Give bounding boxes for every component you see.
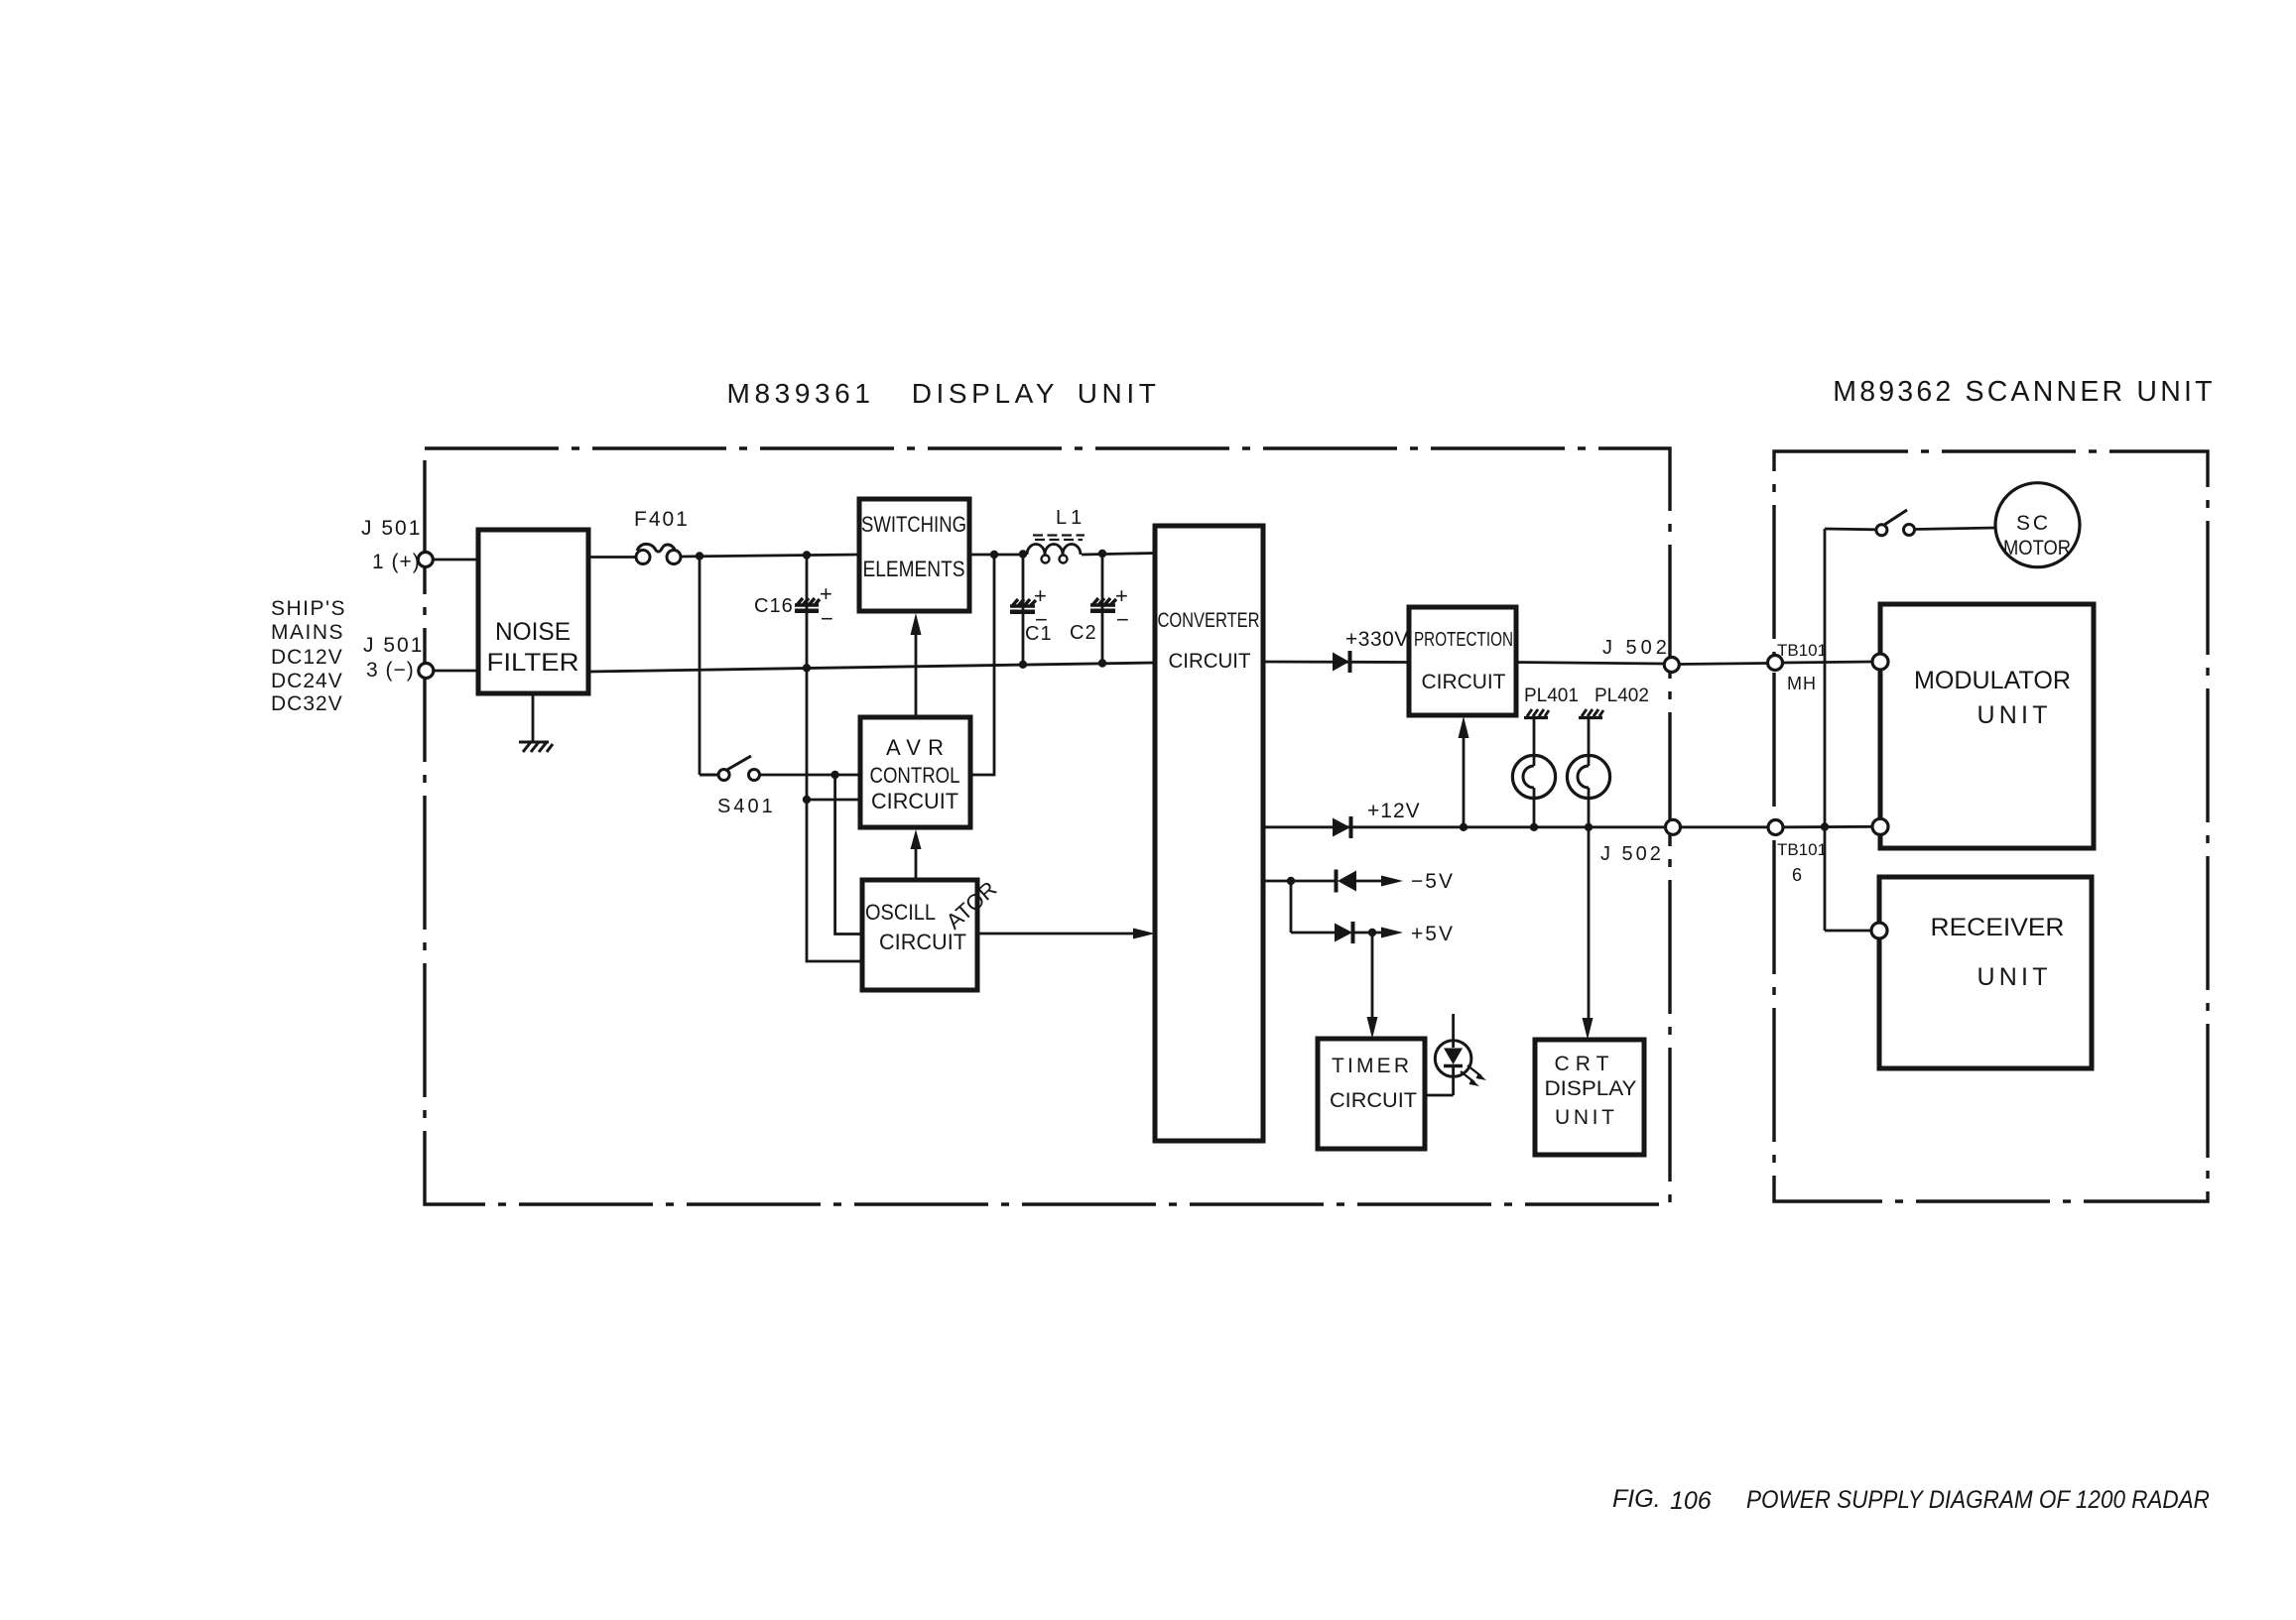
junction -5V/+5V split <box>1287 877 1295 885</box>
svg-text:−: − <box>1116 607 1129 632</box>
terminal J501-1 <box>418 553 433 567</box>
wire AVR feedback <box>970 555 994 775</box>
fuse F401 <box>636 544 681 563</box>
terminal J501-3 <box>419 664 434 679</box>
wire noise filter bottom to ground <box>532 693 535 741</box>
wire J501-1 to noise filter <box>433 559 478 561</box>
svg-text:MODULATOR: MODULATOR <box>1914 667 2071 694</box>
svg-text:CIRCUIT: CIRCUIT <box>1422 671 1506 693</box>
svg-text:F401: F401 <box>634 508 690 531</box>
svg-text:PL402: PL402 <box>1594 685 1649 706</box>
junction timer tap <box>1368 929 1376 936</box>
junction scanner distribution tap <box>1821 822 1829 830</box>
wire switching elements to converter (main bus with L1) <box>969 554 1027 557</box>
terminal TB101-6 <box>1768 820 1783 835</box>
capacitor C2 <box>1070 554 1129 663</box>
junction C1 top <box>1019 550 1027 558</box>
label PL401 PL402 <box>1524 685 1649 706</box>
label TB101 MH <box>1777 641 1827 693</box>
svg-text:MH: MH <box>1787 674 1817 693</box>
svg-text:+5V: +5V <box>1411 923 1455 945</box>
svg-text:FIG.: FIG. <box>1612 1485 1661 1513</box>
diode D +330V <box>1333 653 1349 672</box>
svg-text:DISPLAY: DISPLAY <box>1545 1077 1637 1100</box>
capacitor C1 <box>1010 555 1053 666</box>
svg-text:SHIP'S: SHIP'S <box>271 597 346 620</box>
wire J502 to TB101-6 <box>1681 825 1769 828</box>
lamp PL402 <box>1567 718 1609 827</box>
ground (noise filter) <box>519 742 553 752</box>
svg-text:MOTOR: MOTOR <box>2003 537 2071 560</box>
wire +5V row <box>1291 932 1335 935</box>
svg-text:UNIT: UNIT <box>1555 1106 1614 1129</box>
arrow oscillator output to converter <box>977 933 1139 935</box>
wire TB101-MH to modulator <box>1783 662 1873 663</box>
diode D +12V <box>1333 818 1350 837</box>
junction C16 on 0V bus <box>803 664 811 672</box>
wire branch to oscillator (upper) <box>835 775 862 935</box>
junction C16 line / AVR reference <box>803 796 811 804</box>
svg-text:L1: L1 <box>1056 507 1085 529</box>
svg-text:J 501: J 501 <box>363 634 424 657</box>
svg-text:PROTECTION: PROTECTION <box>1414 629 1513 651</box>
wire noise filter to fuse <box>588 556 636 559</box>
noise filter box <box>478 530 588 693</box>
svg-text:DC32V: DC32V <box>271 692 343 715</box>
wire S401 to AVR control <box>760 774 861 777</box>
arrow oscillator to AVR <box>915 845 918 880</box>
svg-text:1 (+): 1 (+) <box>372 551 421 573</box>
junction protection sense tap <box>1460 823 1467 831</box>
terminal receiver <box>1871 923 1887 938</box>
terminal modulator 6 <box>1872 818 1888 834</box>
svg-text:M839361 DISPLAY UNIT: M839361 DISPLAY UNIT <box>727 378 1161 409</box>
AVR control circuit box <box>860 717 970 827</box>
wire protection to J502 <box>1516 663 1665 665</box>
svg-text:OSCILL: OSCILL <box>865 900 936 925</box>
label SHIP'S MAINS DC12V DC24V DC32V <box>271 597 346 715</box>
svg-text:C1: C1 <box>1025 623 1053 645</box>
diode D -5V (pointing left) <box>1338 871 1356 892</box>
switch S401 <box>700 756 760 781</box>
svg-text:ELEMENTS: ELEMENTS <box>863 557 965 581</box>
svg-text:+: + <box>1034 583 1047 608</box>
wire split vertical <box>1290 881 1293 933</box>
terminal J502 lower <box>1666 819 1681 834</box>
wire fuse to switching elements <box>681 555 859 557</box>
display unit boundary (dash-dot box) <box>425 448 1670 1204</box>
timer circuit box <box>1318 1039 1425 1149</box>
scanner unit boundary (dash-dot box) <box>1774 451 2208 1201</box>
svg-text:DC12V: DC12V <box>271 646 343 669</box>
svg-text:CIRCUIT: CIRCUIT <box>1169 650 1251 673</box>
switch (scanner motor) <box>1876 510 1915 536</box>
label TB101 6 <box>1777 840 1827 885</box>
diode D +5V <box>1335 924 1352 942</box>
svg-text:+: + <box>1115 583 1128 608</box>
svg-text:TB101: TB101 <box>1777 840 1827 859</box>
svg-text:NOISE: NOISE <box>495 618 571 646</box>
junction lamp PL402 on +12V <box>1585 823 1593 831</box>
label J501 pin 1(+) <box>361 517 422 573</box>
svg-text:CIRCUIT: CIRCUIT <box>871 789 958 813</box>
svg-text:AVR: AVR <box>886 735 944 760</box>
CRT display unit box <box>1535 1040 1644 1155</box>
arrow +12V to protection bottom <box>1463 732 1466 827</box>
svg-text:+: + <box>820 581 832 606</box>
caption FIG. 106 POWER SUPPLY DIAGRAM OF 1200 RADAR <box>1612 1485 2210 1515</box>
oscillator circuit box <box>862 880 977 990</box>
junction C1 bottom <box>1019 661 1027 669</box>
svg-text:DC24V: DC24V <box>271 670 343 692</box>
svg-text:J 502: J 502 <box>1600 843 1664 865</box>
wire J502 to TB101-MH <box>1679 664 1767 665</box>
svg-text:CIRCUIT: CIRCUIT <box>879 930 966 954</box>
protection circuit box <box>1409 607 1516 715</box>
wire C16 line to oscillator (lower) <box>807 800 862 961</box>
chassis ground PL402 <box>1579 709 1603 718</box>
receiver unit box <box>1879 877 2092 1068</box>
svg-text:M89362 SCANNER UNIT: M89362 SCANNER UNIT <box>1833 376 2215 408</box>
wire riser to receiver <box>1825 930 1871 933</box>
junction lamp PL401 on +12V <box>1530 823 1538 831</box>
inductor L1 <box>1027 536 1084 563</box>
svg-text:J 501: J 501 <box>361 517 422 540</box>
junction C16 tap <box>803 551 811 559</box>
svg-text:CRT: CRT <box>1555 1053 1609 1075</box>
terminal modulator MH <box>1872 654 1888 670</box>
lamp PL401 <box>1512 718 1555 827</box>
terminal TB101-MH <box>1768 656 1783 671</box>
modulator unit box <box>1880 604 2094 848</box>
svg-text:UNIT: UNIT <box>1977 701 2048 729</box>
svg-text:TIMER: TIMER <box>1332 1055 1409 1077</box>
wire S401 feed (vertical) <box>699 557 702 776</box>
svg-text:C16: C16 <box>754 595 794 617</box>
junction S401 tap <box>696 552 703 560</box>
chassis ground PL401 <box>1524 709 1549 718</box>
svg-text:6: 6 <box>1792 865 1802 885</box>
wire C16 line to AVR control <box>807 799 860 802</box>
terminal J502 upper <box>1664 658 1679 673</box>
svg-text:POWER SUPPLY DIAGRAM OF 1200 R: POWER SUPPLY DIAGRAM OF 1200 RADAR <box>1746 1486 2210 1514</box>
wire +12V converter to J502 <box>1263 825 1666 828</box>
switching elements box <box>859 499 969 611</box>
wire J501-3 to noise filter <box>434 670 478 673</box>
svg-text:106: 106 <box>1670 1487 1712 1515</box>
wire scanner riser (to switch and receiver) <box>1824 529 1827 931</box>
svg-text:−5V: −5V <box>1411 870 1455 893</box>
svg-text:MAINS: MAINS <box>271 621 344 644</box>
label J501 pin 3(-) <box>363 634 424 682</box>
svg-text:PL401: PL401 <box>1524 685 1579 706</box>
svg-text:3 (−): 3 (−) <box>366 659 415 682</box>
junction C2 bottom <box>1098 659 1106 667</box>
0V bus wire <box>588 663 1155 672</box>
capacitor C16 <box>754 556 833 801</box>
svg-text:+12V: +12V <box>1367 800 1421 822</box>
wire riser to switch <box>1825 528 1876 532</box>
svg-text:RECEIVER: RECEIVER <box>1931 914 2065 941</box>
svg-text:FILTER: FILTER <box>487 649 579 677</box>
wire +330V converter to protection <box>1263 661 1409 664</box>
svg-text:SWITCHING: SWITCHING <box>861 512 966 537</box>
svg-text:S401: S401 <box>717 796 776 817</box>
junction AVR feedback tap <box>990 551 998 559</box>
wire switch to SC motor <box>1915 528 1996 530</box>
svg-text:S C: S C <box>2016 512 2048 535</box>
svg-text:−: − <box>821 606 833 631</box>
svg-text:CONTROL: CONTROL <box>870 763 960 788</box>
arrow +5V to timer circuit <box>1371 933 1374 1023</box>
junction S401/oscillator branch <box>830 771 838 779</box>
svg-text:+330V: +330V <box>1345 628 1409 651</box>
svg-text:C2: C2 <box>1070 622 1097 644</box>
converter circuit box <box>1155 526 1263 1141</box>
svg-text:UNIT: UNIT <box>1977 963 2048 991</box>
SC motor <box>1995 483 2080 567</box>
svg-text:TB101: TB101 <box>1777 641 1827 660</box>
svg-text:J 502: J 502 <box>1602 637 1671 659</box>
wire -5V row <box>1263 880 1336 883</box>
wire TB101-6 to modulator lower <box>1783 825 1872 828</box>
LED indicator <box>1425 1014 1486 1095</box>
junction C2 top <box>1098 550 1106 558</box>
svg-text:CONVERTER: CONVERTER <box>1158 609 1260 632</box>
arrow AVR to switching elements <box>915 631 918 717</box>
svg-text:CIRCUIT: CIRCUIT <box>1330 1089 1417 1112</box>
wire lamp PL402 branch to CRT display unit <box>1588 827 1591 1024</box>
